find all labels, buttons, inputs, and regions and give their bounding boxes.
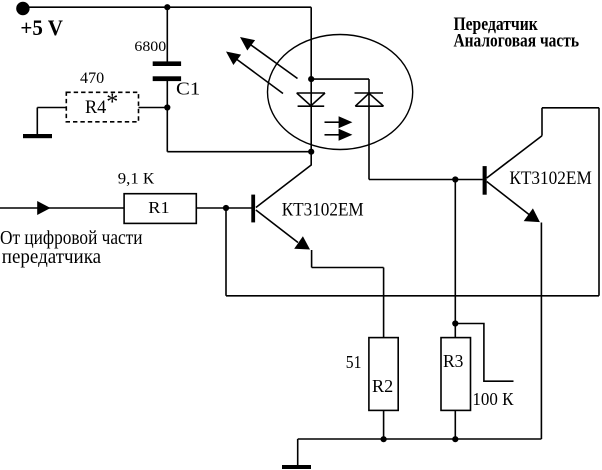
transistor Q1 collector bbox=[256, 152, 311, 208]
node junction LED anode bbox=[308, 76, 314, 82]
wire input to Q1 base bbox=[0, 207, 252, 209]
wire R4 right lead bbox=[139, 107, 168, 109]
wire lower horizontal from C1 to main vertical bbox=[167, 151, 311, 153]
coupling arrow (lower) bbox=[325, 129, 353, 141]
wire R2 bottom lead bbox=[383, 410, 385, 439]
resistor R2 bbox=[369, 338, 398, 411]
node junction R2 bottom bbox=[381, 436, 387, 442]
ground (left of R4) bbox=[23, 134, 52, 138]
wire R3 bottom lead bbox=[454, 410, 456, 439]
svg-text:R1: R1 bbox=[148, 198, 169, 217]
wire main vertical (LED branch) bbox=[310, 7, 312, 152]
wire feedback right vertical bbox=[598, 108, 600, 296]
input arrow head bbox=[37, 201, 50, 215]
transistor Q1 base bar bbox=[251, 195, 255, 223]
node junction R3 trimmer tap bbox=[452, 320, 458, 326]
node junction at top rail and C1 bbox=[164, 4, 170, 10]
wire ground lead bottom bbox=[297, 439, 299, 465]
wire Q2 collector vertical bbox=[541, 108, 543, 136]
emission arrow (upper left, outer) bbox=[240, 37, 298, 79]
node junction R3 bottom bbox=[452, 436, 458, 442]
capacitor C1 bbox=[153, 61, 181, 81]
emission arrow (lower left, outer) bbox=[226, 52, 283, 94]
transistor Q2 collector bbox=[487, 136, 542, 178]
svg-text:470: 470 bbox=[80, 70, 104, 87]
wire R3 top lead bbox=[454, 180, 456, 338]
svg-text:9,1 К: 9,1 К bbox=[118, 170, 155, 187]
wire top link between diodes bbox=[311, 78, 369, 80]
node junction C1/R4 bbox=[164, 104, 170, 110]
svg-text:КТ3102ЕМ: КТ3102ЕМ bbox=[282, 200, 364, 220]
wire right diode branch vertical bbox=[368, 79, 370, 179]
transistor Q2 emitter bbox=[487, 182, 540, 223]
svg-text:КТ3102ЕМ: КТ3102ЕМ bbox=[509, 169, 591, 189]
svg-text:R4: R4 bbox=[85, 98, 106, 118]
wire C1 bottom lead bbox=[166, 81, 168, 152]
transistor Q2 base bar bbox=[483, 166, 487, 195]
svg-text:100 К: 100 К bbox=[472, 389, 514, 409]
svg-text:R2: R2 bbox=[372, 376, 393, 396]
wire C1 top lead bbox=[166, 7, 168, 62]
wire feedback bottom horizontal bbox=[226, 295, 599, 297]
node junction at Q1 base branch bbox=[223, 205, 229, 211]
wire feedback vertical from Q1 base node bbox=[225, 208, 227, 296]
svg-text:+5 V: +5 V bbox=[20, 16, 63, 40]
resistor R3 bbox=[441, 338, 471, 411]
svg-text:передатчика: передатчика bbox=[2, 246, 101, 268]
wire Q1 emitter vertical bbox=[311, 250, 313, 268]
transistor Q1 emitter bbox=[256, 210, 310, 250]
diode D1 (left, pointing down) bbox=[297, 93, 325, 106]
wire R4 ground lead bbox=[36, 108, 38, 135]
wire R4 left lead bbox=[37, 107, 66, 109]
node junction LED cathode / collector bbox=[308, 149, 314, 155]
node +5V terminal dot bbox=[16, 2, 29, 15]
coupling arrow (upper) bbox=[325, 116, 353, 128]
wire Q2 collector top horizontal bbox=[542, 107, 599, 109]
wire trimmer tap branch bbox=[455, 324, 513, 382]
wire R2 top lead bbox=[383, 268, 385, 339]
svg-text:Аналоговая часть: Аналоговая часть bbox=[454, 31, 580, 52]
wire bottom ground rail bbox=[298, 438, 542, 440]
ground (bottom) bbox=[282, 465, 311, 469]
optocoupler envelope circle U1 bbox=[268, 35, 413, 150]
wire Q2 emitter vertical bbox=[540, 223, 542, 440]
svg-text:*: * bbox=[106, 89, 118, 115]
wire +5V top rail bbox=[23, 6, 311, 8]
svg-text:6800: 6800 bbox=[134, 39, 166, 55]
diode D2 (right, pointing up) bbox=[355, 93, 384, 106]
wire emitter to R2 horizontal bbox=[312, 267, 384, 269]
svg-text:R3: R3 bbox=[443, 351, 464, 371]
svg-text:51: 51 bbox=[346, 352, 362, 372]
svg-text:C1: C1 bbox=[176, 79, 200, 99]
resistor R4 (dashed box) bbox=[66, 92, 138, 122]
wire Q2 base horizontal bbox=[369, 179, 483, 181]
resistor R1 bbox=[124, 194, 196, 224]
node junction Q2 base / R3 bbox=[452, 176, 458, 182]
